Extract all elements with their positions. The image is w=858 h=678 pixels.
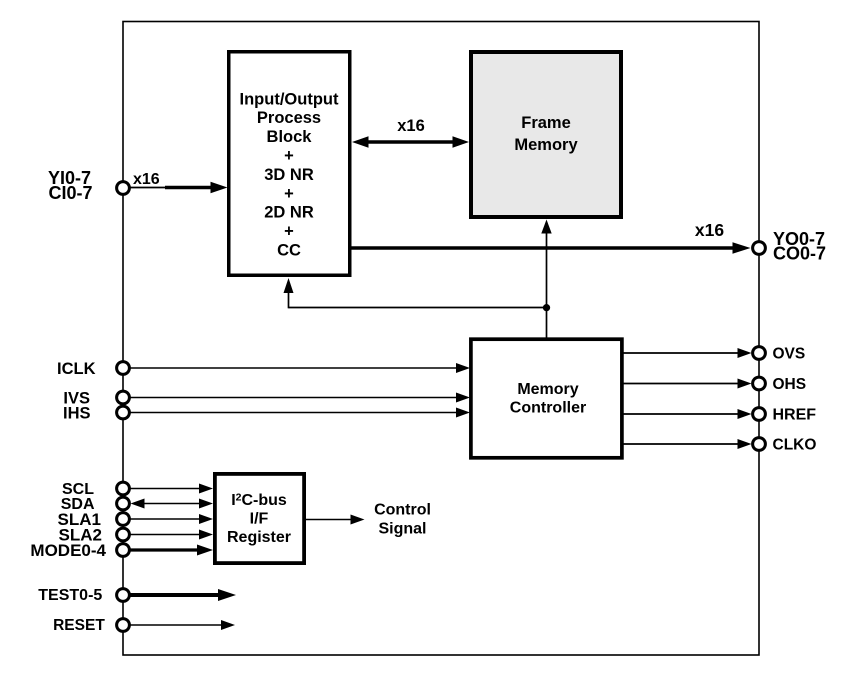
wire: TEST0-5 bus [131, 589, 237, 601]
pin: MODE0-4 [117, 544, 130, 557]
pin: RESET [117, 619, 130, 632]
wire: SDA bidirectional to I2C block [131, 499, 214, 509]
pin: HREF [753, 408, 766, 421]
svg-text:I/F: I/F [250, 511, 269, 528]
wire: RESET [131, 620, 236, 630]
wire: Control Signal output of I2C block [306, 515, 365, 525]
svg-text:TEST0-5: TEST0-5 [38, 587, 102, 604]
wire: SCL to I2C block [131, 484, 214, 494]
svg-text:x16: x16 [397, 117, 425, 135]
wire: HREF from Memory Controller [623, 409, 752, 419]
wire: MODE0-4 bus to I2C block [131, 545, 214, 556]
pin: YI0-7/CI0-7 input [117, 182, 130, 195]
wire: output bus x16 from I/O block to YO/CO pins [352, 242, 751, 253]
svg-text:Frame: Frame [521, 114, 571, 132]
block: Memory Controller [471, 339, 622, 458]
wire: SLA2 to I2C block [131, 530, 214, 540]
wire: YI/CI input bus x16 to I/O block [131, 182, 228, 193]
wire: IVS to Memory Controller [131, 393, 471, 403]
pin: SDA [117, 497, 130, 510]
svg-text:CC: CC [277, 242, 301, 260]
junction: output bus / feedback node [543, 304, 550, 311]
svg-text:Input/Output: Input/Output [240, 90, 339, 108]
svg-text:x16: x16 [695, 220, 724, 240]
svg-text:Block: Block [267, 128, 313, 146]
svg-text:Memory: Memory [517, 381, 578, 398]
wire: branch up into Frame Memory bottom [541, 220, 551, 249]
pin: YO0-7/CO0-7 output [753, 242, 766, 255]
svg-text:x16: x16 [133, 171, 160, 188]
svg-text:OVS: OVS [773, 346, 806, 363]
svg-text:3D NR: 3D NR [264, 166, 314, 184]
svg-text:CLKO: CLKO [773, 437, 817, 454]
pin: SCL [117, 482, 130, 495]
wire: branch down from output bus to Memory Controller [546, 248, 548, 339]
pin: IVS [117, 391, 130, 404]
wire: OVS from Memory Controller [623, 348, 752, 358]
pin: OVS [753, 347, 766, 360]
svg-text:Controller: Controller [510, 399, 586, 416]
wire: IHS to Memory Controller [131, 408, 471, 418]
block: I2C-bus I/F Register [215, 474, 304, 563]
pin: ICLK [117, 362, 130, 375]
svg-text:ICLK: ICLK [57, 360, 96, 378]
pin: OHS [753, 377, 766, 390]
svg-text:Control: Control [374, 502, 431, 519]
svg-text:2D NR: 2D NR [264, 204, 314, 222]
label: Control Signal [374, 502, 431, 538]
pin: TEST0-5 [117, 589, 130, 602]
svg-text:Signal: Signal [378, 521, 426, 538]
svg-text:+: + [284, 223, 294, 241]
block: Input/Output Process Block + 3D NR + 2D NR + CC [229, 52, 350, 276]
svg-text:Register: Register [227, 529, 291, 546]
chip outline (device boundary) [123, 22, 759, 656]
svg-text:RESET: RESET [53, 617, 105, 634]
wire: OHS from Memory Controller [623, 379, 752, 389]
svg-text:HREF: HREF [773, 407, 817, 424]
pin: SLA2 [117, 528, 130, 541]
wire: bidirectional x16 bus between I/O block and Frame Memory [352, 136, 469, 148]
block: Frame Memory [471, 52, 621, 217]
svg-text:+: + [284, 185, 294, 203]
svg-text:MODE0-4: MODE0-4 [30, 541, 106, 560]
svg-text:CI0-7: CI0-7 [48, 183, 92, 203]
svg-text:OHS: OHS [773, 376, 807, 393]
pin: SLA1 [117, 513, 130, 526]
wire: SLA1 to I2C block [131, 514, 214, 524]
wire: CLKO from Memory Controller [623, 439, 752, 449]
wire: feedback from node to I/O block bottom [284, 278, 547, 308]
svg-text:+: + [284, 147, 294, 165]
wire: ICLK to Memory Controller [131, 363, 471, 373]
pin: IHS [117, 406, 130, 419]
svg-text:Memory: Memory [514, 136, 578, 154]
svg-text:Process: Process [257, 109, 321, 127]
pin: CLKO [753, 438, 766, 451]
svg-text:CO0-7: CO0-7 [773, 243, 826, 263]
svg-text:IHS: IHS [63, 404, 91, 422]
